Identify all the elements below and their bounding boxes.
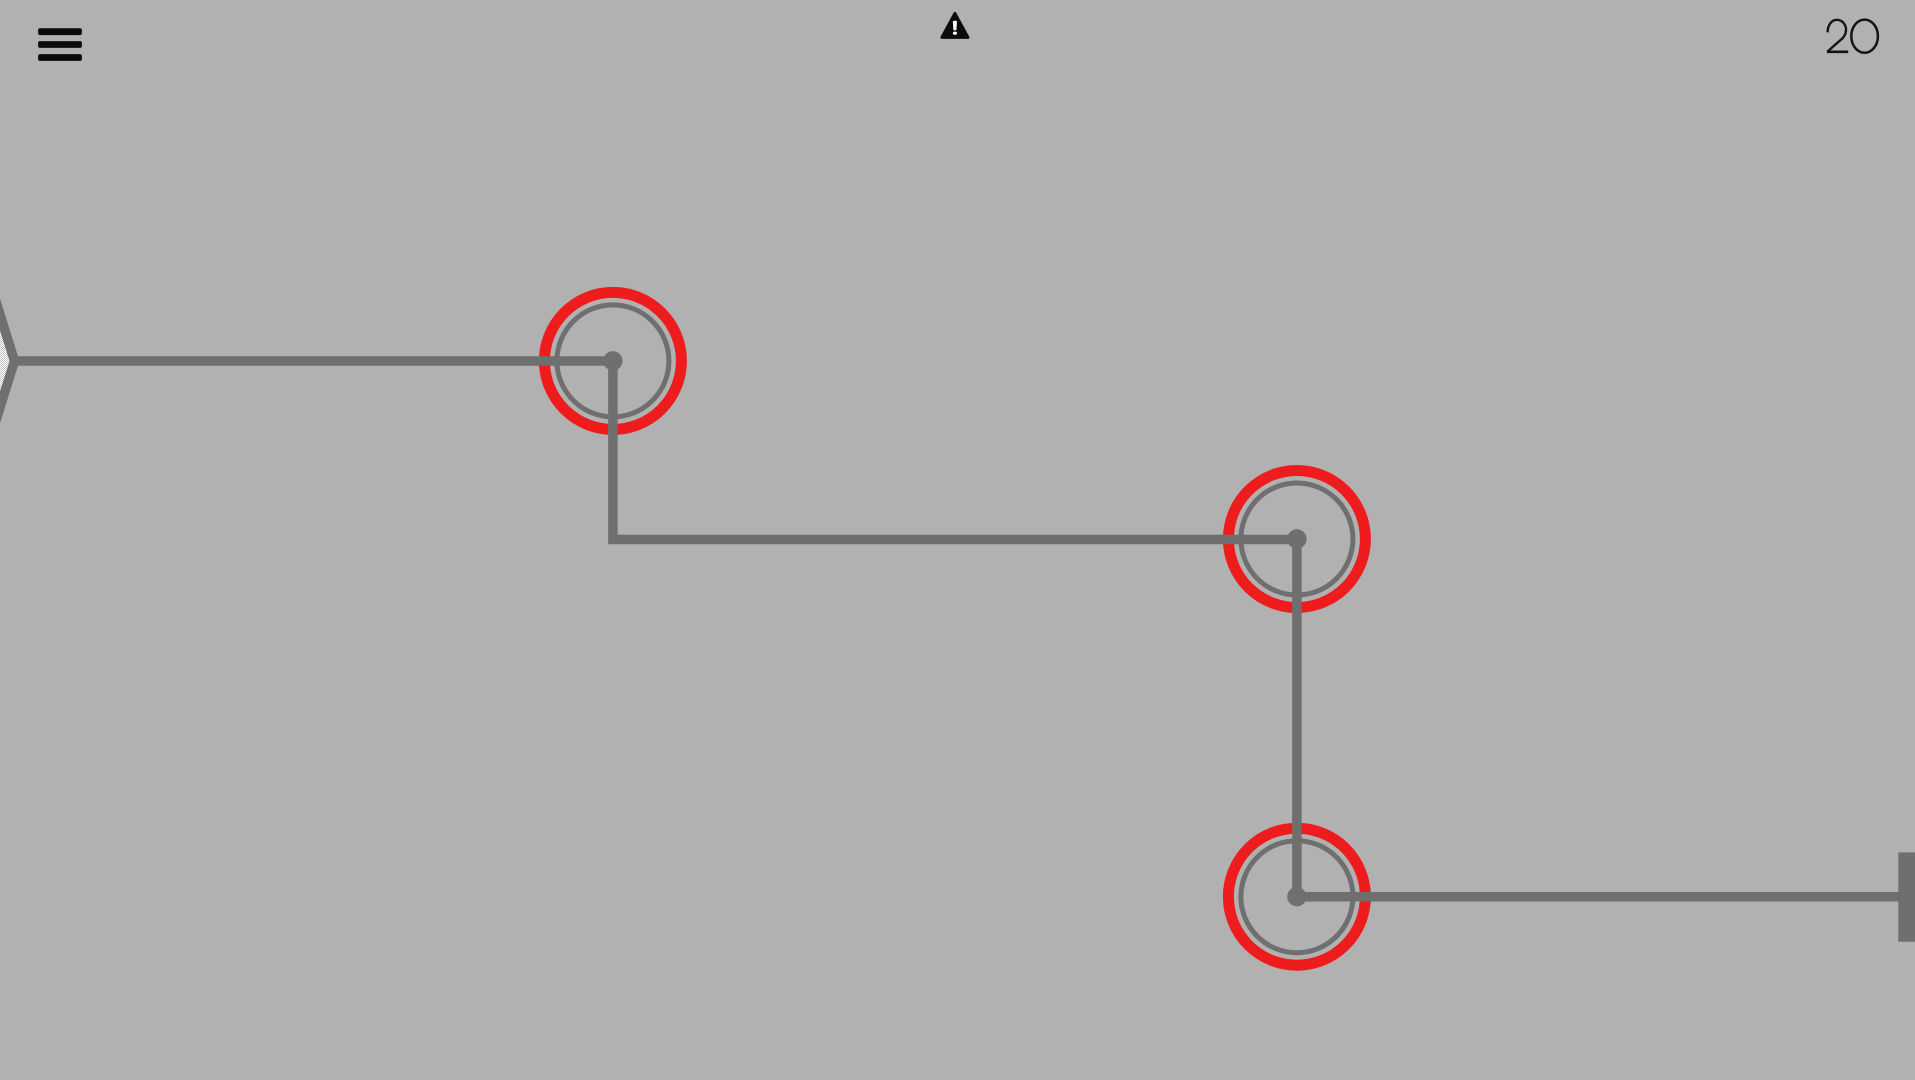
counter digit 0	[1851, 20, 1878, 53]
menu icon bar 3	[38, 54, 82, 61]
warning exclamation dot	[953, 32, 957, 35]
warning exclamation bar	[953, 21, 957, 31]
node B: red ring circle 1	[544, 292, 681, 429]
node D: red ring circle 3	[1228, 828, 1365, 965]
wire: full path from diamond through nodes to right bar	[11, 361, 1906, 897]
node C: red ring circle 2	[1228, 471, 1365, 608]
warning triangle	[942, 14, 968, 38]
right bar end-cap	[1898, 852, 1915, 941]
node D: gray ring circle 3	[1241, 841, 1353, 953]
node C: gray ring circle 2	[1241, 483, 1353, 595]
node D: center dot	[1287, 887, 1306, 906]
menu icon bar 2	[38, 41, 82, 48]
menu icon bar 1	[38, 28, 82, 35]
counter digit 2 base line	[1827, 50, 1848, 53]
node A: diamond end-cap at left edge	[0, 105, 15, 617]
node B: gray ring circle 1	[557, 305, 669, 417]
node C: center dot	[1287, 529, 1306, 548]
node B: center dot	[603, 351, 622, 370]
counter digit 2	[1827, 20, 1846, 52]
